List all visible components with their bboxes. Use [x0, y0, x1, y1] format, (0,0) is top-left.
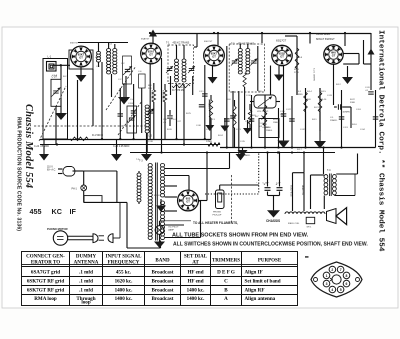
svg-text:110 V.: 110 V. [47, 167, 54, 169]
tuning capacitor C-1A [53, 91, 59, 93]
IF T-1 secondary coil [182, 59, 186, 82]
capacitor C-6 [118, 114, 124, 116]
IF T-2 secondary coil [246, 49, 250, 75]
svg-text:BAND: BAND [155, 258, 170, 263]
resistor 470 Mohm [172, 84, 190, 87]
wire vert x310 stub [309, 33, 311, 44]
wire bus y152 [130, 152, 335, 154]
svg-text:loop: loop [81, 300, 91, 306]
IF T-2 trimmer F [232, 61, 238, 63]
svg-text:FREQUENCY: FREQUENCY [108, 260, 140, 265]
ground under V5 [347, 66, 349, 77]
svg-text:R-7 470 MΩ: R-7 470 MΩ [172, 90, 185, 92]
svg-text:25MFD: 25MFD [330, 120, 338, 122]
AC plug [63, 167, 75, 177]
capacitor C-8 [131, 111, 137, 113]
svg-text:C-13: C-13 [210, 119, 216, 121]
svg-text:TRIMMERS: TRIMMERS [212, 258, 240, 263]
wire vert x244 IF2 coil [244, 87, 246, 120]
wire vert x56 [55, 107, 57, 145]
ground x321 [319, 131, 321, 141]
svg-text:VOL.CONT.: VOL.CONT. [257, 111, 269, 113]
dial box [84, 196, 102, 203]
wire vert x161 V2 plate [161, 58, 163, 153]
svg-text:R-1 500 Ω: R-1 500 Ω [92, 134, 103, 137]
octal socket bottom view [311, 262, 362, 297]
alignment table grid [22, 252, 298, 306]
svg-text:R-21: R-21 [314, 107, 320, 109]
wire plug to lamp [73, 170, 84, 172]
svg-text:PHONO MOTOR: PHONO MOTOR [47, 227, 68, 231]
wire T-4 left bottom [323, 196, 325, 210]
wire node dot A [149, 32, 151, 34]
IF T-1 trimmer D [167, 68, 173, 70]
svg-text:ERATOR TO: ERATOR TO [31, 260, 60, 265]
wire vert x208 gnd stub [209, 100, 211, 125]
svg-text:Align IF: Align IF [245, 269, 263, 275]
svg-text:C-35: C-35 [240, 141, 246, 143]
svg-text:R-26: R-26 [167, 129, 173, 131]
svg-text:Set limit of band: Set limit of band [245, 278, 281, 284]
wire vert x371 [370, 33, 372, 90]
svg-text:60~ A.C.: 60~ A.C. [47, 169, 56, 172]
svg-text:7: 7 [340, 268, 342, 272]
svg-text:GT: GT [79, 55, 83, 59]
svg-text:GT: GT [212, 54, 216, 58]
svg-text:R-4 47MΩ: R-4 47MΩ [151, 90, 153, 100]
svg-text:C-19: C-19 [343, 127, 349, 129]
svg-text:MFD: MFD [298, 94, 303, 96]
svg-text:PHONO: PHONO [213, 212, 221, 214]
svg-text:INPUT SIGNAL: INPUT SIGNAL [106, 254, 143, 259]
loop antenna assembly box [43, 59, 68, 140]
dashed gang line [34, 125, 148, 127]
wire vert x102 [101, 62, 103, 139]
svg-text:C-31: C-31 [259, 123, 265, 125]
ground under osc [146, 153, 148, 155]
svg-text:R-23: R-23 [283, 141, 289, 143]
wire vert x334 V5 cath [333, 65, 335, 106]
wire vert x320 to gnd [319, 88, 321, 131]
svg-text:3: 3 [326, 282, 328, 286]
svg-text:1400 kc.: 1400 kc. [187, 288, 206, 294]
wire vert x44 gnd stem [43, 139, 45, 154]
capacitor C-? 0.006 [281, 114, 287, 116]
svg-text:C-22: C-22 [286, 109, 292, 111]
svg-text:R-22: R-22 [350, 99, 356, 101]
oscillator trimmer C [129, 118, 135, 120]
field coil [285, 212, 325, 214]
dashed diag osc trimmer [118, 101, 142, 135]
resistor R-18 [233, 106, 236, 128]
svg-text:R-17: R-17 [297, 149, 303, 151]
svg-text:6SK7GT RF grid: 6SK7GT RF grid [27, 278, 65, 284]
svg-text:R-5 15MΩ: R-5 15MΩ [162, 90, 164, 100]
wire vert x247 gnd stub [247, 120, 249, 128]
wire vert x292 [291, 96, 293, 148]
svg-text:Broadcast: Broadcast [152, 288, 174, 294]
svg-text:6SA7GT: 6SA7GT [141, 38, 150, 41]
rect around trimmer A [123, 56, 132, 84]
svg-text:C-16: C-16 [243, 152, 249, 154]
wire vert x93 [92, 69, 94, 126]
capacitor C-10 [230, 116, 236, 118]
svg-text:Chassis Model 554: Chassis Model 554 [23, 104, 34, 188]
ground under V1 [80, 67, 82, 75]
resistor R-10 [318, 92, 322, 112]
svg-text:.1 mfd: .1 mfd [79, 278, 93, 284]
capacitor on x201 [199, 105, 205, 107]
wire vert x176 IF1 coil down [176, 84, 178, 139]
wire vert x193 [192, 76, 194, 95]
ground near T-3 [160, 199, 162, 206]
IF T-2 trimmer G [251, 61, 257, 63]
svg-text:C-21: C-21 [236, 129, 242, 131]
svg-text:C: C [224, 278, 228, 284]
wire T-4 right top [336, 173, 357, 175]
svg-text:R-10: R-10 [322, 99, 328, 101]
resistor 22 Mohm [208, 143, 220, 147]
wire top bus left segment [78, 42, 128, 44]
svg-text:470K: 470K [178, 87, 184, 89]
svg-text:C-11: C-11 [199, 91, 204, 93]
oscillator coil L-5 [145, 105, 149, 133]
svg-text:AT: AT [192, 260, 199, 265]
resistor R-19 [248, 110, 251, 124]
chassis ground symbol [267, 210, 280, 217]
capacitor C-15 0.01 MFD [338, 104, 340, 110]
svg-text:22MΩ: 22MΩ [206, 141, 212, 143]
wire caps join [268, 195, 280, 197]
wire vert x262 [261, 33, 263, 43]
svg-text:B: B [224, 288, 228, 294]
wire vert x184 [183, 84, 185, 145]
wire vert x238 [238, 91, 240, 154]
wire vert x125 trimmer to ground [125, 76, 127, 97]
svg-text:455 kc.: 455 kc. [116, 269, 132, 275]
svg-text:R-6 1MEG: R-6 1MEG [208, 99, 210, 109]
svg-text:SP-1: SP-1 [307, 227, 313, 229]
choke L-6 [137, 173, 141, 202]
resistor R-1 500 ohm [70, 137, 88, 141]
wire vert x218 stub [217, 33, 219, 45]
ground x247 [243, 128, 252, 134]
svg-text:C-32: C-32 [300, 129, 306, 131]
svg-text:R-12: R-12 [336, 84, 342, 86]
wire plug conductor B [84, 170, 117, 172]
svg-text:1400 kc.: 1400 kc. [115, 296, 134, 302]
wire vert x77 [77, 80, 79, 139]
speaker transducer box [306, 217, 315, 223]
wire vert x120 [119, 88, 121, 139]
speaker [327, 209, 337, 224]
ground under dial lamp [159, 234, 161, 241]
svg-text:D E F G: D E F G [217, 269, 235, 275]
oscillator padder box [139, 74, 146, 88]
coil L-2 [97, 51, 101, 62]
svg-text:KC: KC [52, 207, 62, 216]
capacitor C-14 [373, 117, 379, 119]
svg-text:C-33: C-33 [327, 95, 333, 97]
svg-text:330K: 330K [350, 102, 356, 104]
ground x238 [236, 154, 246, 161]
capacitor C-13 [339, 117, 345, 119]
resistor R-9 [304, 92, 308, 112]
svg-text:1400 kc.: 1400 kc. [187, 296, 206, 302]
wire bus to field coil [303, 153, 305, 173]
svg-text:R-25: R-25 [186, 113, 192, 115]
svg-text:C-23 0.05 MFD: C-23 0.05 MFD [113, 145, 130, 148]
svg-text:CONNECT GEN-: CONNECT GEN- [26, 254, 65, 259]
resistor R-8 [295, 48, 299, 69]
osc trimmer 2 [148, 111, 154, 113]
svg-text:6SA7GT grid: 6SA7GT grid [31, 269, 60, 275]
svg-text:HF end: HF end [187, 278, 203, 284]
svg-text:A: A [224, 296, 228, 302]
svg-text:6SK7GT RF grid: 6SK7GT RF grid [27, 288, 65, 294]
svg-text:1400 kc.: 1400 kc. [115, 288, 134, 294]
svg-text:Broadcast: Broadcast [152, 278, 174, 284]
svg-text:C-37: C-37 [176, 121, 182, 123]
svg-text:SET DIAL: SET DIAL [184, 254, 208, 259]
oscillator trimmer box [127, 106, 137, 133]
tuning capacitor C-1A box [51, 79, 61, 106]
wire vert x297 [296, 36, 298, 95]
ground under bus x242 [242, 148, 244, 151]
svg-text:455 KC TRANS: 455 KC TRANS [173, 42, 190, 45]
phono pickup [216, 190, 225, 209]
wire vert x226 IF2 [226, 46, 228, 148]
svg-text:LAMP: LAMP [168, 228, 174, 231]
svg-text:C-1A: C-1A [52, 74, 58, 77]
resistor in T-2 [243, 73, 246, 87]
ground x284 [283, 131, 285, 141]
svg-text:R-20: R-20 [273, 119, 279, 121]
svg-text:R-24: R-24 [218, 135, 224, 137]
ground big under trimmer [123, 84, 125, 97]
svg-text:455: 455 [30, 207, 42, 216]
svg-text:6SK7GT: 6SK7GT [70, 43, 79, 45]
IF transformer T-1 dashed box [168, 45, 194, 84]
phono plug pair [93, 234, 98, 243]
dial lamp #51 [155, 226, 164, 235]
wire primary return [126, 202, 128, 248]
wire vert x323 to output transformer [323, 148, 325, 175]
svg-text:20MFD: 20MFD [243, 155, 251, 157]
svg-text:C-34: C-34 [360, 129, 366, 131]
svg-text:ANTENNA: ANTENNA [74, 260, 99, 265]
svg-text:Align RF: Align RF [245, 288, 265, 294]
wire vert x150 [149, 64, 151, 140]
svg-text:C-24 .05 MFD: C-24 .05 MFD [34, 145, 49, 148]
svg-text:GT: GT [332, 53, 336, 57]
svg-text:DUMMY: DUMMY [76, 254, 97, 259]
trimmer capacitor A antenna [125, 69, 131, 71]
svg-text:CHASSIS: CHASSIS [266, 219, 280, 223]
svg-text:IF: IF [70, 207, 77, 216]
svg-text:HF end: HF end [187, 269, 203, 275]
svg-text:6: 6 [346, 282, 348, 286]
IF transformer T-2 dashed box [229, 44, 264, 92]
wires T-3 taps [165, 168, 230, 170]
wire bus y147 [220, 147, 376, 149]
svg-text:FIELD COIL: FIELD COIL [288, 223, 300, 225]
svg-text:4: 4 [331, 288, 333, 292]
capacitor C-11 [289, 119, 295, 121]
coil L-3 secondary [113, 49, 117, 75]
wire vert x111 L-3 bottom [111, 74, 113, 97]
svg-text:R-16: R-16 [352, 124, 358, 126]
svg-text:.1 mfd: .1 mfd [79, 269, 93, 275]
capacitor C-7 [224, 119, 230, 121]
svg-text:2MEG: 2MEG [266, 130, 272, 132]
wire vert x141 osc [141, 88, 143, 133]
junction dots [277, 151, 279, 153]
tube V1 6SK7GT RF amp [69, 50, 93, 69]
wire L-3 top [108, 43, 110, 49]
electrolytic capacitor C-17 [279, 153, 281, 187]
wire vert x305 [305, 88, 307, 148]
svg-text:PH-1: PH-1 [72, 188, 78, 190]
switch dashed link [231, 175, 233, 222]
svg-text:2: 2 [331, 268, 333, 272]
svg-text:HUM COIL: HUM COIL [301, 185, 303, 196]
svg-text:1MEG: 1MEG [273, 122, 279, 124]
wire vert x363 stub [363, 40, 365, 64]
wire pot wiper [264, 126, 266, 148]
switch unit dashed box [205, 193, 259, 195]
svg-text:#51 PILOT: #51 PILOT [168, 227, 179, 229]
wire vert x278 pot bottom [278, 108, 280, 148]
wire top bus [150, 33, 371, 35]
dashed diag antenna trimmer [106, 66, 136, 110]
tube V5 6K6GT output [324, 45, 343, 64]
IF T-2 primary coil [238, 49, 242, 75]
svg-text:GT: GT [280, 54, 284, 58]
wire T-4 right bottom [334, 195, 355, 197]
svg-text:C-21 .01MFD: C-21 .01MFD [313, 68, 315, 82]
svg-text:270K: 270K [294, 72, 300, 74]
capacitor C-5 [202, 94, 208, 96]
wire vert x204 [204, 65, 206, 139]
wire V5 plate right [343, 53, 359, 55]
svg-text:.1 mfd: .1 mfd [79, 288, 93, 294]
svg-text:R-14: R-14 [307, 91, 313, 93]
electrolytic capacitor C-16 [267, 153, 269, 187]
wire loop to V1 grid [53, 64, 70, 66]
wire vert x146 to ground [146, 133, 148, 154]
tube V2 6SA7GT converter [141, 43, 162, 64]
ground left bottom [39, 154, 49, 161]
svg-text:R-10: R-10 [266, 127, 272, 129]
tube V6 6X5GT rectifier [178, 190, 199, 211]
svg-text:C-36: C-36 [196, 125, 202, 127]
wire IF1 top right [196, 34, 198, 48]
svg-text:1: 1 [326, 274, 328, 278]
svg-text:RMA loop: RMA loop [34, 296, 57, 302]
svg-text:C-14: C-14 [245, 121, 251, 123]
wire vert x345 stub [344, 33, 346, 46]
dashed diag C-1A [39, 86, 66, 141]
svg-text:5: 5 [340, 288, 342, 292]
capacitor top right [368, 92, 374, 94]
antenna arrow above V2 [149, 30, 157, 37]
coil L-3 primary [107, 48, 111, 74]
svg-text:6SQ7GT: 6SQ7GT [276, 39, 287, 43]
pilot lamp PH-1 [81, 185, 87, 191]
svg-text:8: 8 [346, 274, 348, 278]
svg-text:ALL SWITCHES SHOWN IN COUNTERC: ALL SWITCHES SHOWN IN COUNTERCLOCKWISE P… [173, 242, 368, 248]
volume control potentiometer [254, 95, 276, 108]
power transformer T-3 primary [148, 163, 152, 239]
capacitor C-9 [249, 119, 255, 121]
svg-text:R-11: R-11 [312, 119, 317, 121]
loop antenna L-1 spiral [47, 62, 57, 72]
svg-text:6X5GT: 6X5GT [154, 195, 162, 197]
wire vert x233 [232, 91, 234, 148]
svg-text:GT: GT [149, 52, 153, 56]
svg-text:6SK7GT: 6SK7GT [204, 41, 213, 43]
resistor R-3 [163, 90, 167, 102]
svg-text:R-15: R-15 [321, 91, 327, 93]
svg-text:Broadcast: Broadcast [152, 296, 174, 302]
ground inside loop box [60, 98, 62, 113]
tone control box [259, 119, 279, 138]
wire vert x375 [375, 90, 377, 148]
ground x225 [224, 118, 226, 126]
wire vert x270 pot top [270, 66, 272, 96]
svg-text:560KΩ 22MΩ: 560KΩ 22MΩ [316, 34, 330, 36]
capacitor on x170 [167, 116, 173, 118]
resistor R-6 [209, 100, 212, 118]
wire vert x133 [133, 84, 135, 139]
svg-text:Broadcast: Broadcast [152, 269, 174, 275]
svg-text:C-18: C-18 [356, 109, 362, 111]
ground x209 [205, 125, 214, 131]
resistor diode load [263, 105, 267, 126]
svg-text:560Ω FIELD: 560Ω FIELD [290, 185, 292, 197]
svg-text:C-20: C-20 [206, 129, 212, 131]
power transformer T-3 core [155, 163, 157, 241]
tube V3 6SK7GT IF [204, 45, 225, 66]
IF T-1 trimmer E [189, 68, 195, 70]
ground under V3 [208, 77, 218, 84]
svg-text:International Detrola Corp. **: International Detrola Corp. ** Chassis M… [377, 30, 385, 252]
svg-text:C-38: C-38 [148, 141, 154, 143]
power transformer T-3 secondary [160, 163, 164, 197]
wire rect output [198, 200, 207, 202]
IF T-1 primary coil [175, 59, 179, 82]
svg-text:0.01MFD: 0.01MFD [341, 112, 350, 114]
arrow top right [368, 49, 375, 55]
svg-text:GT: GT [186, 199, 190, 203]
svg-text:RMA PRODUCTION SOURCE CODE No.: RMA PRODUCTION SOURCE CODE No. 3136) [16, 117, 22, 231]
wire vert x283 V4 gnd stub [283, 66, 285, 131]
phono motor [53, 231, 67, 245]
output transformer T-4 [324, 175, 328, 195]
wire vert x257 IF2 right [257, 46, 259, 91]
svg-text:R-13: R-13 [294, 69, 300, 71]
wire bus y144 [40, 144, 220, 146]
svg-text:C-15: C-15 [280, 111, 286, 113]
svg-text:T-3: T-3 [139, 160, 143, 163]
wire T-4 left top [311, 174, 325, 176]
wire vert x341 [341, 90, 343, 148]
svg-text:20K: 20K [148, 88, 152, 90]
tube V4 6SQ7GT det-AF [272, 45, 292, 65]
wire vert x214 V3 cath [212, 66, 214, 77]
printing mark near socket [305, 256, 309, 258]
